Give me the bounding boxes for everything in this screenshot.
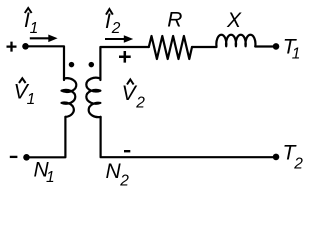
- wire secondary bottom: [101, 117, 276, 157]
- svg-text:2: 2: [119, 173, 129, 190]
- wire X to T1: [255, 45, 275, 47]
- svg-text:2: 2: [293, 155, 303, 172]
- svg-text:R: R: [167, 9, 182, 32]
- resistor R: [149, 36, 192, 59]
- svg-text:1: 1: [27, 91, 36, 108]
- winding N1 primary: [62, 78, 77, 117]
- plus sign secondary: [119, 51, 131, 63]
- wire primary top: [26, 46, 64, 80]
- minus sign secondary: [124, 150, 130, 152]
- label I2: [105, 9, 121, 37]
- svg-text:X: X: [226, 9, 242, 32]
- polarity dot right: [89, 62, 95, 68]
- label V2: [122, 80, 146, 112]
- svg-text:2: 2: [111, 20, 121, 37]
- svg-text:2: 2: [135, 95, 145, 112]
- inductor X: [216, 35, 255, 47]
- svg-text:1: 1: [30, 20, 39, 37]
- svg-text:V: V: [122, 82, 138, 105]
- label N1: [34, 159, 55, 186]
- arrow I1: [30, 35, 58, 43]
- label T2: [283, 141, 304, 172]
- label V1: [14, 78, 36, 108]
- label I1: [24, 8, 38, 37]
- svg-text:1: 1: [292, 45, 301, 62]
- terminal dot T1: [273, 43, 280, 50]
- winding N2 secondary: [86, 78, 100, 117]
- label N2: [106, 160, 130, 190]
- polarity dot left: [69, 62, 75, 68]
- svg-text:1: 1: [46, 169, 55, 186]
- label T1: [283, 36, 301, 63]
- svg-text:N: N: [106, 160, 122, 183]
- terminal dot T2: [273, 154, 280, 161]
- wire primary bottom: [26, 117, 65, 157]
- wire R to X: [192, 46, 217, 48]
- node dot primary -: [23, 154, 30, 161]
- node dot primary +: [22, 43, 29, 50]
- plus sign primary: [7, 42, 17, 52]
- minus sign primary: [10, 156, 18, 158]
- wire secondary top lead: [100, 47, 148, 80]
- arrow I2: [105, 35, 133, 43]
